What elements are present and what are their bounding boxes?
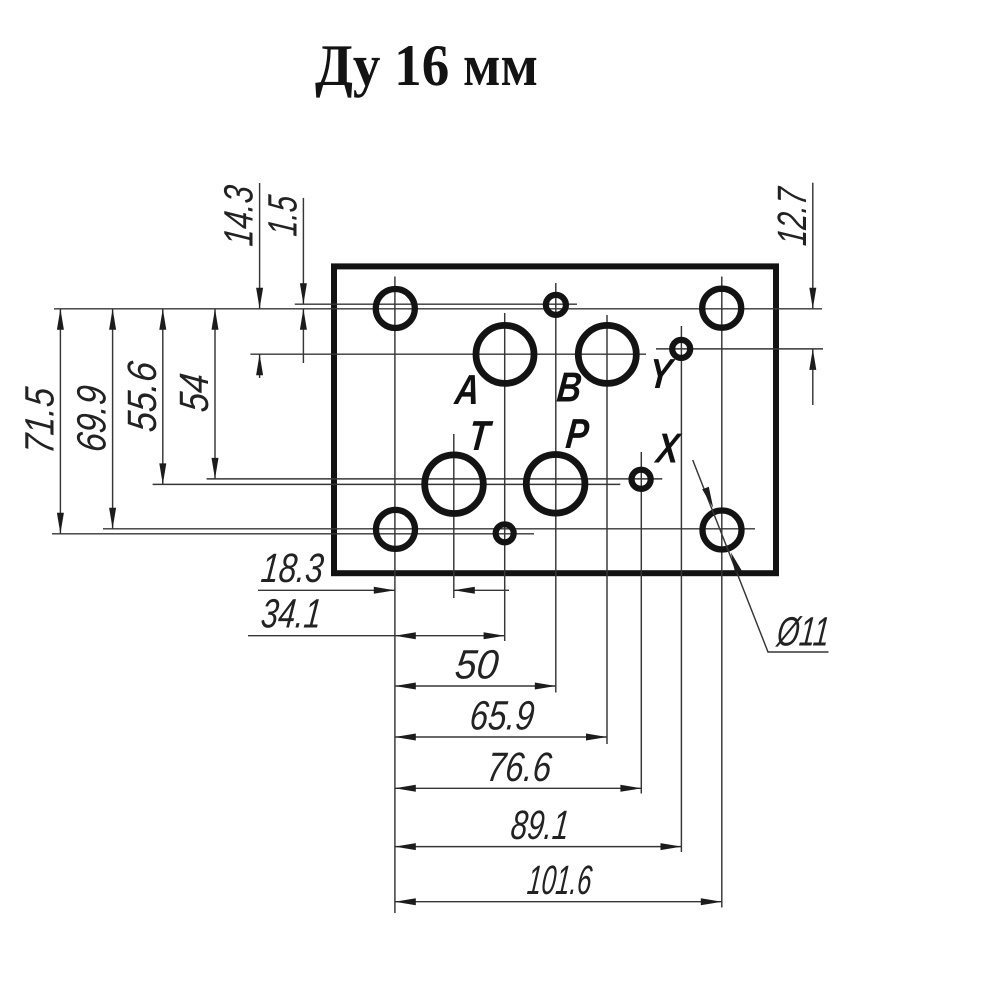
dimension 54	[171, 309, 219, 479]
svg-text:1.5: 1.5	[259, 193, 305, 238]
bolt hole bottom-left	[376, 510, 415, 549]
centerline X vertical	[640, 452, 642, 794]
svg-text:12.7: 12.7	[769, 184, 815, 247]
svg-text:18.3: 18.3	[259, 545, 326, 591]
diameter callout Ø11 leader	[693, 460, 832, 655]
centerline left bolts vertical	[394, 277, 396, 914]
dimension 55.6	[119, 309, 167, 485]
centerline Y hole	[656, 348, 823, 350]
dimension 89.1	[395, 802, 682, 850]
small hole top	[546, 295, 566, 315]
svg-text:Ø11: Ø11	[774, 609, 832, 655]
centerline A vertical	[504, 313, 506, 641]
svg-text:65.9: 65.9	[468, 693, 537, 739]
pilot hole X	[632, 470, 651, 489]
centerline Y vertical	[680, 326, 682, 852]
centerline B vertical	[606, 315, 608, 744]
port hole P	[526, 455, 585, 514]
port hole T	[425, 455, 484, 514]
centerline bottom bolt holes	[103, 528, 755, 530]
svg-text:76.6: 76.6	[485, 744, 554, 790]
svg-text:Ду 16 мм: Ду 16 мм	[315, 32, 538, 98]
dimension 76.6	[395, 744, 642, 792]
centerline right bolts vertical	[721, 277, 723, 908]
bolt hole top-left	[376, 289, 415, 328]
centerline X hole	[207, 478, 663, 480]
dimension 34.1	[248, 591, 505, 640]
port hole B	[578, 325, 636, 383]
plate outline	[334, 266, 776, 573]
pilot hole Y	[672, 340, 690, 358]
dimension 12.7	[769, 183, 817, 405]
svg-text:101.6: 101.6	[525, 857, 594, 903]
svg-text:54: 54	[171, 371, 217, 414]
svg-text:A: A	[452, 366, 482, 413]
bolt hole bottom-right	[703, 511, 742, 550]
port hole A	[476, 325, 534, 383]
svg-text:B: B	[555, 364, 584, 411]
svg-text:34.1: 34.1	[259, 591, 324, 637]
svg-text:50: 50	[453, 642, 501, 688]
dimension 50	[395, 642, 556, 690]
dimension 69.9	[69, 309, 117, 529]
svg-text:55.6: 55.6	[119, 359, 165, 434]
dimension 101.6	[395, 857, 722, 905]
small hole bottom	[496, 524, 514, 542]
centerline top small hole	[295, 303, 577, 305]
centerline T P holes	[153, 483, 621, 485]
svg-text:71.5: 71.5	[16, 385, 62, 456]
centerline A B holes	[250, 353, 646, 355]
dimension 65.9	[395, 693, 607, 741]
centerline P vertical	[555, 283, 557, 693]
dimension 71.5	[16, 309, 64, 534]
svg-text:89.1: 89.1	[509, 802, 572, 848]
dimension 14.3	[216, 183, 264, 378]
svg-text:14.3: 14.3	[216, 183, 262, 248]
dimension 1.5	[259, 193, 307, 363]
bolt hole top-right	[702, 289, 741, 328]
centerline bottom small hole	[52, 533, 534, 535]
centerline T vertical	[453, 434, 455, 598]
centerline top bolt holes	[54, 308, 822, 310]
svg-text:69.9: 69.9	[69, 383, 115, 454]
dimension 18.3	[258, 545, 509, 594]
